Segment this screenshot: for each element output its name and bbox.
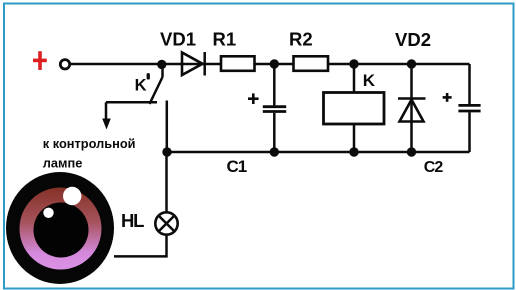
capacitor C2 <box>458 105 480 111</box>
junction at switch tap <box>157 60 166 69</box>
lamp HL symbol <box>155 212 177 234</box>
junction bottom left <box>162 147 171 156</box>
junction top C1 tap <box>270 59 279 68</box>
wire from bottom-left junction down to lamp <box>165 152 168 213</box>
svg-text:VD1: VD1 <box>160 28 196 49</box>
svg-text:лампе: лампе <box>43 155 83 170</box>
svg-text:C2: C2 <box>424 159 444 176</box>
junction bottom relay <box>349 147 358 156</box>
svg-text:HL: HL <box>121 210 144 231</box>
wire bottom rail <box>167 151 470 154</box>
input terminal <box>60 60 69 69</box>
resistor R1 <box>221 56 255 71</box>
junction bottom C1 <box>270 147 279 156</box>
wire below lamp <box>114 235 167 257</box>
junction top VD2 tap <box>407 59 416 68</box>
relay coil K <box>324 64 385 152</box>
svg-text:к контрольной: к контрольной <box>43 136 136 151</box>
svg-text:R2: R2 <box>289 28 313 49</box>
svg-text:VD2: VD2 <box>395 29 431 50</box>
wire top rail <box>71 63 470 66</box>
svg-text:K: K <box>135 76 147 94</box>
resistor R2 <box>294 56 329 71</box>
wire to control lamp (vertical) <box>105 102 108 122</box>
polarity + of C2 <box>443 93 452 102</box>
wire right branch upper (to C2) <box>468 64 471 105</box>
wire to control lamp (horizontal) <box>106 101 157 104</box>
switch K' stub from junction <box>161 66 164 77</box>
switch K' fixed contact wire down <box>166 101 169 153</box>
switch K' blade <box>150 77 163 104</box>
arrowhead to control lamp <box>102 119 111 130</box>
junction bottom VD2 <box>407 147 416 156</box>
polarity + of C1 <box>248 93 259 104</box>
node + (positive supply) <box>33 51 47 70</box>
wire right branch lower (from C2) <box>468 112 471 152</box>
junction top relay tap <box>349 59 358 68</box>
svg-text:C1: C1 <box>227 157 247 176</box>
svg-text:K: K <box>363 71 376 90</box>
diode VD1 <box>182 52 205 76</box>
eye graphic (decorative) <box>6 172 114 284</box>
diode VD2 <box>398 64 426 152</box>
capacitor C1 <box>263 64 286 152</box>
svg-text:R1: R1 <box>213 28 237 49</box>
